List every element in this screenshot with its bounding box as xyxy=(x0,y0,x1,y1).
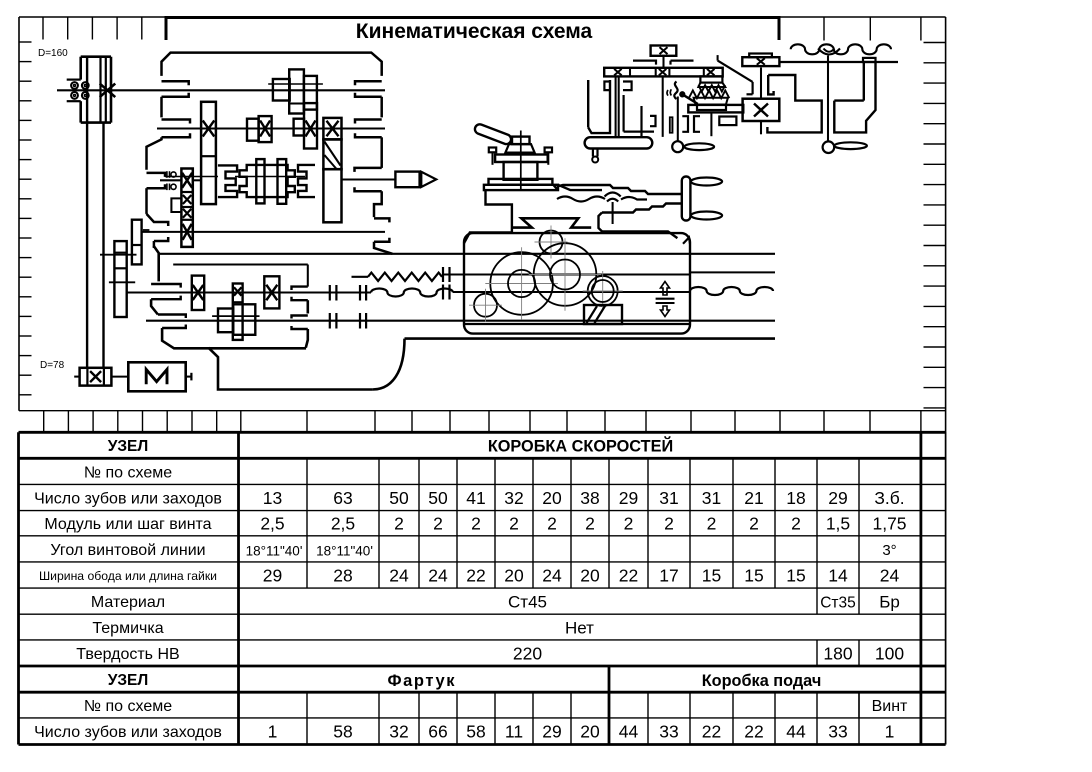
control shaft top right xyxy=(780,61,898,63)
svg-text:11: 11 xyxy=(505,722,523,742)
table grid xyxy=(19,410,946,412)
svg-text:18°11"40': 18°11"40' xyxy=(316,543,373,558)
bed outline xyxy=(208,339,404,390)
rod through X box xyxy=(760,68,762,99)
tumbler lever xyxy=(674,82,677,100)
svg-text:20: 20 xyxy=(504,565,524,585)
svg-text:33: 33 xyxy=(828,722,847,742)
svg-text:Число зубов или заходов: Число зубов или заходов xyxy=(34,490,222,507)
shaft III segments xyxy=(160,179,181,181)
svg-text:100: 100 xyxy=(875,643,904,663)
svg-text:22: 22 xyxy=(466,565,485,585)
svg-text:41: 41 xyxy=(466,488,485,508)
friction clutch symbol xyxy=(166,171,168,178)
norton meshing cone xyxy=(700,76,722,82)
apron top right notch xyxy=(683,238,690,244)
drawing sheet border with ruler ticks xyxy=(19,16,946,18)
svg-text:15: 15 xyxy=(702,565,721,585)
svg-text:КОРОБКА СКОРОСТЕЙ: КОРОБКА СКОРОСТЕЙ xyxy=(488,436,673,455)
toolpost with handle xyxy=(474,123,513,146)
svg-text:22: 22 xyxy=(702,722,721,742)
svg-text:№ по схеме: № по схеме xyxy=(84,698,172,715)
svg-text:44: 44 xyxy=(619,722,639,742)
svg-text:Винт: Винт xyxy=(872,698,908,715)
svg-text:№ по схеме: № по схеме xyxy=(84,464,172,481)
svg-text:D=160: D=160 xyxy=(38,48,68,59)
shaft IV xyxy=(142,231,385,233)
dog clutch coupling xyxy=(218,165,237,197)
arc pair under wave xyxy=(818,49,840,55)
title box xyxy=(166,18,779,41)
svg-text:Ст35: Ст35 xyxy=(820,595,856,612)
svg-text:180: 180 xyxy=(823,643,852,663)
svg-text:66: 66 xyxy=(428,722,447,742)
svg-text:220: 220 xyxy=(513,643,542,663)
svg-text:20: 20 xyxy=(542,488,562,508)
svg-text:24: 24 xyxy=(542,565,562,585)
feed selector boxes xyxy=(651,46,677,56)
lever bracket xyxy=(171,198,181,212)
main pulley D160 xyxy=(81,55,111,58)
svg-text:1: 1 xyxy=(885,722,895,742)
big X gear box xyxy=(743,99,780,121)
svg-text:Ст45: Ст45 xyxy=(508,593,547,612)
saddle xyxy=(484,185,558,190)
svg-text:17: 17 xyxy=(659,565,678,585)
svg-text:15: 15 xyxy=(786,565,805,585)
svg-text:Ширина обода или длина гайки: Ширина обода или длина гайки xyxy=(39,569,217,583)
collar on shaft xyxy=(863,58,876,62)
svg-text:32: 32 xyxy=(389,722,408,742)
svg-text:Коробка подач: Коробка подач xyxy=(702,672,822,690)
svg-text:УЗЕЛ: УЗЕЛ xyxy=(108,672,149,689)
motor M xyxy=(128,362,185,391)
svg-text:31: 31 xyxy=(659,488,678,508)
svg-text:2: 2 xyxy=(664,514,674,534)
gear pair on shaft II xyxy=(247,119,259,141)
svg-text:20: 20 xyxy=(580,722,600,742)
svg-text:2: 2 xyxy=(509,514,519,534)
svg-text:50: 50 xyxy=(428,488,448,508)
pivot capsule xyxy=(585,137,653,148)
svg-text:1: 1 xyxy=(268,722,278,742)
bearing ticks x445 xyxy=(442,267,444,282)
svg-text:18: 18 xyxy=(786,488,805,508)
motor pulley D78 xyxy=(80,368,112,386)
svg-text:Число зубов или заходов: Число зубов или заходов xyxy=(34,724,222,741)
svg-text:22: 22 xyxy=(619,565,638,585)
svg-text:58: 58 xyxy=(333,722,352,742)
svg-text:31: 31 xyxy=(702,488,721,508)
engage arrows xyxy=(661,282,670,296)
svg-text:29: 29 xyxy=(542,722,561,742)
svg-text:1,5: 1,5 xyxy=(826,514,850,534)
selector rod xyxy=(662,76,664,136)
svg-text:Твердость НВ: Твердость НВ xyxy=(76,646,179,663)
feed gear A2 xyxy=(264,276,279,308)
svg-text:33: 33 xyxy=(659,722,678,742)
speed gearbox housing xyxy=(162,53,382,76)
svg-text:24: 24 xyxy=(428,565,448,585)
svg-text:18°11"40': 18°11"40' xyxy=(246,543,303,558)
bar mounting brackets xyxy=(633,61,656,65)
middle frame pieces xyxy=(622,95,624,132)
lever rod with handle xyxy=(677,97,679,142)
svg-text:38: 38 xyxy=(580,488,599,508)
svg-text:Кинематическая схема: Кинематическая схема xyxy=(356,20,593,43)
spindle nose with center xyxy=(342,178,396,180)
left vertical frame xyxy=(587,80,589,127)
svg-text:Материал: Материал xyxy=(91,594,165,611)
tailstock handwheel xyxy=(682,177,691,221)
feed rod line xyxy=(158,253,775,255)
feed gear A1 xyxy=(192,276,204,310)
svg-text:2,5: 2,5 xyxy=(331,514,355,534)
svg-text:32: 32 xyxy=(504,488,523,508)
feed shaft line xyxy=(146,320,775,322)
double gear block shafts II-III xyxy=(201,102,216,204)
feed gearbox housing xyxy=(154,246,159,282)
svg-text:УЗЕЛ: УЗЕЛ xyxy=(108,438,149,455)
svg-text:14: 14 xyxy=(828,565,848,585)
svg-text:Фартук: Фартук xyxy=(387,672,456,690)
quadrant gear column xyxy=(181,169,192,247)
apron gear train xyxy=(540,231,563,254)
svg-text:28: 28 xyxy=(333,565,352,585)
svg-text:24: 24 xyxy=(880,565,900,585)
shaft I xyxy=(57,89,385,91)
svg-text:3°: 3° xyxy=(882,542,896,559)
svg-text:58: 58 xyxy=(466,722,485,742)
belt to motor xyxy=(86,58,88,368)
svg-text:50: 50 xyxy=(389,488,409,508)
svg-text:20: 20 xyxy=(580,565,600,585)
tailstock body xyxy=(557,185,682,194)
gear on shaft IV left xyxy=(132,220,142,265)
svg-text:2: 2 xyxy=(433,514,443,534)
svg-text:Бр: Бр xyxy=(879,593,900,612)
leadscrew with telescopic waves xyxy=(127,291,371,293)
bearing ticks x363 xyxy=(359,285,361,301)
svg-text:13: 13 xyxy=(263,488,282,508)
svg-text:2: 2 xyxy=(791,514,801,534)
right stepped bracket xyxy=(767,75,821,132)
svg-text:29: 29 xyxy=(619,488,638,508)
svg-text:Угол винтовой линии: Угол винтовой линии xyxy=(50,542,205,559)
svg-text:З.б.: З.б. xyxy=(874,488,904,508)
svg-text:2: 2 xyxy=(547,514,557,534)
svg-text:D=78: D=78 xyxy=(40,360,65,371)
rod line 2 short xyxy=(173,263,308,265)
link rod to selector xyxy=(717,55,719,61)
spring on control rod xyxy=(352,276,369,278)
svg-text:29: 29 xyxy=(263,565,282,585)
svg-text:21: 21 xyxy=(744,488,763,508)
carriage dovetail marks xyxy=(513,218,591,227)
clutch gear with hatch xyxy=(323,118,341,139)
svg-text:2: 2 xyxy=(707,514,717,534)
apron box xyxy=(464,233,690,334)
half-nut hatched block xyxy=(584,305,622,324)
svg-text:Нет: Нет xyxy=(565,619,594,638)
svg-text:24: 24 xyxy=(389,565,409,585)
gear cluster on shaft I xyxy=(273,79,290,101)
svg-text:63: 63 xyxy=(333,488,352,508)
svg-text:15: 15 xyxy=(744,565,763,585)
bearing ticks x332 xyxy=(329,285,331,301)
svg-text:2,5: 2,5 xyxy=(260,514,284,534)
svg-text:29: 29 xyxy=(828,488,847,508)
svg-text:2: 2 xyxy=(585,514,595,534)
svg-text:2: 2 xyxy=(471,514,481,534)
worm bar rod xyxy=(710,112,712,136)
svg-text:44: 44 xyxy=(786,722,806,742)
svg-text:2: 2 xyxy=(624,514,634,534)
gear on shaft II right xyxy=(294,119,304,136)
bearing cross on shaft I at pulley xyxy=(100,84,116,98)
svg-text:22: 22 xyxy=(744,722,763,742)
svg-text:Модуль или шаг винта: Модуль или шаг винта xyxy=(44,516,211,533)
worm bar xyxy=(688,105,743,113)
svg-text:2: 2 xyxy=(749,514,759,534)
svg-text:Термичка: Термичка xyxy=(92,620,163,637)
sliding block on shaft B xyxy=(218,309,233,333)
svg-text:2: 2 xyxy=(394,514,404,534)
shaft II xyxy=(157,127,385,129)
right rod with handle xyxy=(827,56,829,142)
clutch discs at pulley xyxy=(67,78,81,80)
top right wave xyxy=(791,44,891,54)
tumbler gear xyxy=(233,284,243,340)
svg-text:1,75: 1,75 xyxy=(872,514,906,534)
